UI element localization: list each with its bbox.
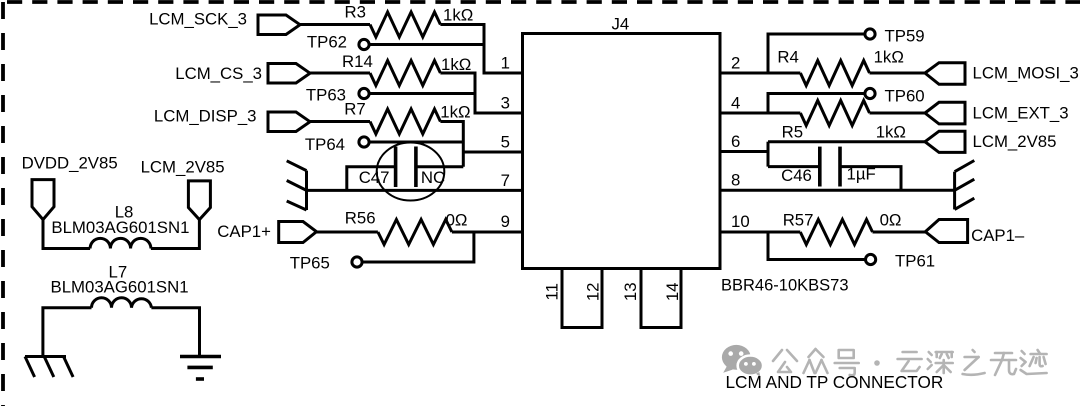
svg-text:12: 12	[583, 282, 602, 301]
svg-text:LCM_MOSI_3: LCM_MOSI_3	[973, 64, 1079, 83]
svg-text:R57: R57	[783, 211, 814, 230]
inductor L8 (ferrite bead)	[90, 238, 151, 248]
svg-text:5: 5	[501, 133, 510, 152]
test point TP59	[865, 29, 875, 39]
svg-text:LCM_CS_3: LCM_CS_3	[175, 64, 262, 83]
svg-text:BLM03AG601SN1: BLM03AG601SN1	[51, 278, 189, 297]
wire pin 2 to R4	[720, 72, 800, 75]
wire L7 left to chassis ground	[43, 308, 92, 357]
watermark WeChat logo	[722, 345, 763, 377]
svg-text:2: 2	[731, 54, 740, 73]
net label CAP1-	[925, 220, 1025, 246]
capacitor C46	[820, 147, 840, 187]
resistor R57	[800, 220, 872, 245]
svg-text:TP59: TP59	[885, 27, 925, 46]
wire CAP1+ to R56	[317, 231, 378, 234]
wire R7 to pin 5 and C47	[440, 122, 463, 167]
resistor R56	[378, 220, 452, 245]
svg-text:R14: R14	[342, 52, 373, 71]
svg-text:C46: C46	[781, 166, 812, 185]
wire R3 to pin 1	[440, 25, 522, 74]
wire C46 left lead	[768, 165, 820, 168]
svg-text:1µF: 1µF	[847, 165, 876, 184]
svg-text:1kΩ: 1kΩ	[874, 48, 904, 67]
svg-text:LCM_SCK_3: LCM_SCK_3	[149, 10, 247, 29]
wire TP64 to R7 output	[369, 141, 463, 144]
svg-text:8: 8	[731, 171, 740, 190]
wire pin 7 rail	[307, 189, 523, 192]
wire pin 10 to R57	[720, 231, 800, 234]
svg-text:11: 11	[543, 283, 562, 300]
svg-text:DVDD_2V85: DVDD_2V85	[22, 154, 118, 173]
power symbol LCM_2V85 (left)	[141, 158, 225, 220]
off-page connector symbol (pin 7 net)	[287, 161, 307, 210]
wire pin 5 stub	[463, 151, 522, 154]
resistor R3	[370, 12, 440, 37]
off-page connector symbol (pin 8 net)	[955, 161, 975, 210]
svg-text:R56: R56	[345, 209, 376, 228]
svg-text:BBR46-10KBS73: BBR46-10KBS73	[721, 277, 849, 295]
net label LCM_MOSI_3	[925, 63, 1079, 85]
svg-text:CAP1+: CAP1+	[217, 222, 271, 241]
test point TP61	[866, 254, 876, 264]
svg-text:R7: R7	[344, 100, 365, 119]
svg-text:TP63: TP63	[306, 86, 346, 105]
svg-text:CAP1–: CAP1–	[971, 226, 1025, 245]
watermark text 公众号·云深之无迹 (drawn)	[773, 349, 1047, 375]
resistor R4	[800, 61, 869, 86]
resistor R14	[370, 61, 440, 86]
svg-text:TP60: TP60	[885, 87, 925, 106]
wire L8 to LCM_2V85	[151, 220, 200, 249]
test point TP62	[359, 39, 369, 49]
svg-text:14: 14	[663, 282, 682, 301]
resistor R5	[800, 101, 869, 126]
test point TP60	[865, 88, 875, 98]
capacitor C47 (NC, not populated)	[396, 147, 416, 188]
chassis ground	[25, 357, 73, 378]
svg-text:1: 1	[501, 54, 510, 73]
test point TP65	[352, 257, 362, 267]
wire L7 right to earth ground	[151, 308, 199, 357]
svg-text:13: 13	[621, 282, 640, 301]
C47 no-populate ellipse	[377, 143, 445, 201]
net label LCM_2V85 (right)	[925, 131, 1056, 152]
svg-text:LCM_EXT_3: LCM_EXT_3	[973, 104, 1069, 123]
inductor L7 (ferrite bead)	[92, 298, 152, 308]
wire LCM_2V85 rail	[768, 140, 925, 143]
svg-text:R4: R4	[777, 48, 798, 67]
test point TP64	[359, 137, 369, 147]
svg-text:TP65: TP65	[290, 254, 330, 273]
wire pin 6 stub	[720, 150, 768, 153]
svg-text:NC: NC	[421, 168, 445, 187]
svg-text:1kΩ: 1kΩ	[876, 123, 906, 142]
net label CAP1+	[217, 222, 316, 243]
wire TP63 to R14 output	[369, 92, 475, 95]
svg-text:1kΩ: 1kΩ	[440, 103, 470, 122]
wire R4 to LCM_MOSI_3	[870, 72, 926, 75]
power symbol DVDD_2V85	[22, 154, 118, 220]
wire junction down to TP65	[362, 232, 474, 262]
svg-text:0Ω: 0Ω	[446, 211, 468, 230]
svg-text:1kΩ: 1kΩ	[443, 6, 473, 25]
wire C47 right lead	[416, 165, 463, 168]
wire LCM_CS_3 to R14	[310, 72, 370, 75]
svg-text:6: 6	[731, 132, 740, 151]
svg-text:LCM AND TP CONNECTOR: LCM AND TP CONNECTOR	[726, 372, 944, 392]
wire R5 to LCM_EXT_3	[870, 112, 926, 115]
net label LCM_CS_3	[175, 64, 310, 84]
svg-text:7: 7	[501, 171, 510, 190]
connector J4 body	[523, 34, 721, 328]
svg-text:C47: C47	[359, 168, 390, 187]
wire R14 to pin 3	[440, 73, 522, 113]
resistor R7	[370, 109, 440, 134]
net label LCM_SCK_3	[149, 10, 300, 35]
wire pin 4 up to TP60	[768, 94, 865, 114]
svg-text:4: 4	[731, 94, 740, 113]
svg-text:J4: J4	[612, 15, 630, 34]
wire R56 to pin 9	[452, 231, 523, 234]
svg-text:R5: R5	[782, 123, 803, 142]
earth ground	[180, 357, 221, 380]
wire pin 4 to R5	[720, 112, 800, 115]
wire R57 to CAP1-	[873, 231, 926, 234]
net label LCM_EXT_3	[925, 102, 1069, 124]
wire C46 right lead to pin 8 rail	[840, 167, 901, 191]
net label LCM_DISP_3	[154, 107, 310, 132]
svg-text:LCM_2V85: LCM_2V85	[973, 132, 1057, 151]
wire pin 10 down to TP61	[768, 232, 865, 260]
svg-text:1kΩ: 1kΩ	[441, 55, 471, 74]
svg-text:0Ω: 0Ω	[880, 211, 902, 230]
wire junction vertical pin6	[767, 142, 770, 167]
wire C47 left lead to pin 7 rail	[347, 167, 396, 191]
svg-text:TP62: TP62	[307, 33, 347, 52]
wire TP62 to R3 output	[369, 43, 484, 46]
svg-text:LCM_DISP_3: LCM_DISP_3	[154, 107, 257, 126]
svg-text:9: 9	[501, 212, 510, 231]
svg-text:TP64: TP64	[305, 135, 345, 154]
svg-text:BLM03AG601SN1: BLM03AG601SN1	[51, 218, 189, 237]
wire LCM_DISP_3 to R7	[310, 120, 370, 123]
svg-text:LCM_2V85: LCM_2V85	[141, 158, 225, 177]
svg-text:R3: R3	[345, 3, 366, 22]
wire pin 8 rail	[720, 189, 955, 192]
wire LCM_SCK_3 to R3	[300, 23, 370, 26]
svg-text:3: 3	[501, 94, 510, 113]
wire pin 2 up to TP59	[768, 34, 865, 73]
svg-text:TP61: TP61	[895, 252, 935, 271]
test point TP63	[359, 88, 369, 98]
svg-text:10: 10	[731, 212, 750, 231]
wire DVDD_2V85 down to L8	[43, 220, 90, 249]
